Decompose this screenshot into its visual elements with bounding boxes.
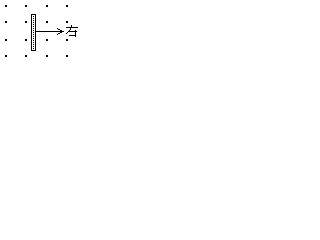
grid dot r2c1 bbox=[5, 21, 7, 23]
label text 右 : heng top horizontal stroke bbox=[66, 25, 78, 37]
grid dot r3c3 bbox=[46, 39, 48, 41]
label text 右 : pie left-falling stroke bbox=[71, 25, 72, 27]
label text 右 : mouth box bottom bar bbox=[69, 35, 76, 36]
grid dot r1c1 bbox=[5, 5, 7, 7]
grid dot r3c2 bbox=[25, 39, 27, 41]
grid dot r1c4 bbox=[66, 5, 68, 7]
arrowhead (open barbs, tip at x=63,y=31) bbox=[57, 28, 62, 35]
grid dot r4c3 bbox=[46, 55, 48, 57]
grid dot r2c4 bbox=[66, 21, 68, 23]
arrow shaft bbox=[36, 31, 64, 32]
grid dot r2c2 bbox=[25, 21, 27, 23]
grid dot r4c2 bbox=[25, 55, 27, 57]
grid dot r1c2 bbox=[25, 5, 27, 7]
grid dot r3c1 bbox=[5, 39, 7, 41]
tape dotted centerline bbox=[33, 16, 34, 49]
label text 右 : mouth box right stem bbox=[75, 30, 76, 37]
grid dot r2c3 bbox=[46, 21, 48, 23]
grid dot r3c4 bbox=[66, 39, 68, 41]
paper tape outline bbox=[31, 14, 36, 51]
grid dot r4c4 bbox=[66, 55, 68, 57]
label text 右 : mouth box top bar bbox=[68, 31, 77, 32]
grid dot r4c1 bbox=[5, 55, 7, 57]
grid dot r1c3 bbox=[46, 5, 48, 7]
